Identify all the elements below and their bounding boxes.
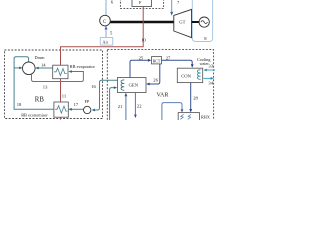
shaft turbine-generator — [192, 21, 200, 23]
svg-text:17: 17 — [74, 102, 79, 107]
wire 28 CON to RHX — [190, 83, 192, 112]
svg-text:13: 13 — [43, 84, 48, 89]
combustor F box — [132, 0, 152, 7]
condenser CON — [177, 68, 202, 82]
turbine GT — [174, 9, 192, 37]
wire stream 6 — [105, 0, 107, 15]
svg-text:10: 10 — [141, 38, 146, 43]
wire 26 RCT to GEN — [147, 64, 160, 84]
svg-text:11: 11 — [62, 93, 67, 98]
wire 16 GEN coil return to pump — [93, 80, 124, 110]
wire 21 into GEN bottom — [125, 94, 127, 120]
generator GEN of VAR — [118, 78, 147, 93]
wire 17 pump to economizer — [70, 108, 84, 110]
svg-text:34: 34 — [208, 81, 213, 86]
wire downcomer 13 drum to evaporator — [32, 72, 84, 82]
dashed enclosure RB (recovery boiler subsystem) — [5, 50, 103, 119]
svg-text:27: 27 — [166, 56, 171, 61]
dashed enclosure VAR (absorption refrigeration subsystem) — [107, 50, 213, 125]
compressor C — [100, 15, 111, 26]
pump FP — [84, 106, 91, 113]
svg-text:VAR: VAR — [157, 93, 169, 99]
wire 34 cooling water out — [203, 77, 212, 79]
wire 33 cooling water in — [205, 69, 216, 71]
svg-text:25: 25 — [139, 56, 144, 61]
wire flue gas from combustor, stream 10 — [61, 7, 144, 66]
svg-text:RB: RB — [35, 96, 45, 103]
wire VAR loop to RHX — [162, 103, 182, 120]
generator blue enclosure — [192, 0, 212, 42]
wire 22 from GEN bottom — [134, 93, 136, 117]
svg-text:26: 26 — [153, 78, 158, 83]
svg-text:C: C — [103, 20, 106, 25]
wire riser 14 evaporator to drum — [36, 67, 53, 69]
svg-text:RHX: RHX — [201, 114, 210, 119]
air source box — [100, 38, 112, 46]
wire feedwater 18 economizer to drum — [14, 57, 54, 110]
wire 25 GEN to RCT — [130, 60, 150, 77]
svg-text:21: 21 — [118, 104, 123, 109]
svg-text:RB economiser: RB economiser — [21, 113, 48, 118]
shaft compressor-turbine — [110, 21, 175, 24]
wire flue gas exit stub — [60, 117, 62, 119]
drum — [23, 62, 36, 75]
economizer HX2 — [54, 102, 68, 117]
wire drum inlet stub — [14, 67, 20, 69]
svg-text:FP: FP — [85, 99, 90, 104]
evaporator HX1 — [53, 65, 68, 79]
svg-text:14: 14 — [41, 63, 46, 68]
svg-text:RCT: RCT — [153, 59, 161, 63]
heat exchanger RHX — [178, 113, 199, 122]
wire flue gas evaporator-economizer — [60, 79, 62, 102]
dashed enclosure combustor — [120, 0, 163, 8]
svg-text:28: 28 — [193, 95, 198, 100]
svg-text:Air: Air — [102, 40, 108, 45]
svg-text:16: 16 — [91, 84, 96, 89]
svg-text:22: 22 — [137, 103, 142, 108]
wire stream 5 — [105, 26, 107, 37]
svg-text:RB evaporator: RB evaporator — [70, 64, 96, 69]
wire stream 7 — [171, 0, 173, 14]
svg-text:GEN: GEN — [129, 83, 139, 88]
wire 27 RCT to CON — [162, 60, 193, 66]
svg-text:33: 33 — [208, 64, 213, 69]
generator G1 — [199, 17, 209, 27]
rectifier RCT — [152, 57, 162, 64]
svg-text:CON: CON — [181, 73, 191, 78]
svg-text:18: 18 — [17, 102, 22, 107]
svg-text:GT: GT — [179, 20, 185, 25]
svg-text:Drum: Drum — [35, 55, 46, 60]
wire steam supply into GEN — [110, 88, 116, 120]
